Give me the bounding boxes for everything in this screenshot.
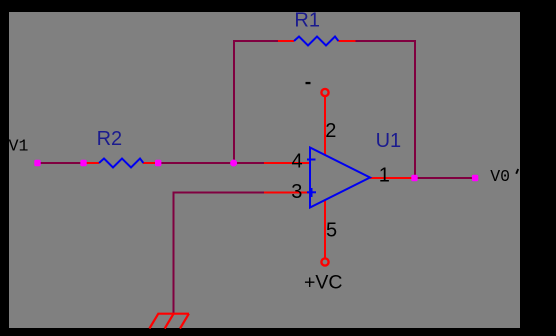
svg-text:+VC: +VC bbox=[304, 272, 342, 294]
node: V1 input terminal bbox=[34, 160, 40, 166]
wire: top-right corner down to output node bbox=[414, 40, 416, 178]
svg-text:V1: V1 bbox=[9, 137, 29, 156]
minus label above negative terminal bbox=[306, 82, 311, 84]
node: R2 left pin bbox=[80, 160, 86, 166]
svg-text:3: 3 bbox=[291, 181, 302, 203]
wire: junction up to feedback top bbox=[233, 41, 235, 163]
resistor R1 zigzag body bbox=[294, 37, 338, 46]
junction dot at feedback tap bbox=[230, 160, 237, 167]
wire: pin 3 horizontal from ground riser bbox=[173, 192, 265, 194]
wire: R2 right to op-amp pin 4 (through junction) bbox=[157, 162, 264, 164]
svg-text:U1: U1 bbox=[376, 130, 402, 152]
op-amp pin 2 red lead bbox=[324, 97, 326, 156]
node: V0 terminal bbox=[472, 175, 478, 181]
svg-text:R2: R2 bbox=[97, 128, 123, 150]
wire: R1 right to top-right corner bbox=[356, 40, 417, 42]
node: R2 right pin bbox=[155, 160, 161, 166]
wire: output node to V0 terminal bbox=[415, 177, 475, 179]
resistor R1 leads bbox=[278, 40, 294, 42]
op-amp pin 4 red lead bbox=[264, 162, 310, 164]
clipped tick after V0 bbox=[516, 169, 518, 174]
op-amp pin 3 red lead bbox=[264, 192, 310, 194]
op-amp U1 triangle body bbox=[310, 148, 370, 208]
wire: ground riser vertical bbox=[173, 192, 175, 314]
node: output junction bbox=[411, 175, 417, 181]
wire: V1 terminal to R2 left bbox=[37, 162, 85, 164]
negative supply open terminal circle bbox=[321, 89, 328, 96]
wire: top-left horizontal to R1 bbox=[233, 40, 279, 42]
resistor R2 zigzag body bbox=[99, 159, 143, 168]
svg-text:1: 1 bbox=[379, 165, 390, 187]
resistor R2 leads bbox=[85, 162, 99, 164]
op-amp non-inverting input plus mark bbox=[307, 191, 316, 193]
op-amp inverting input minus mark bbox=[307, 159, 316, 161]
svg-text:V0: V0 bbox=[490, 167, 510, 186]
ground symbol bbox=[149, 314, 189, 329]
op-amp pin 5 red lead bbox=[324, 200, 326, 259]
positive supply open terminal circle bbox=[321, 258, 328, 265]
op-amp pin 1 output red lead bbox=[370, 177, 412, 179]
svg-text:4: 4 bbox=[292, 151, 303, 173]
svg-text:R1: R1 bbox=[294, 10, 320, 32]
svg-text:5: 5 bbox=[326, 220, 337, 242]
svg-text:2: 2 bbox=[325, 120, 336, 142]
